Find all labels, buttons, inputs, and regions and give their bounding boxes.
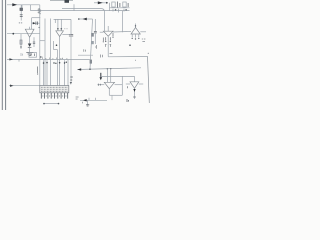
dimension dot left xyxy=(43,103,45,105)
capacitor box C2 left edge xyxy=(31,18,33,29)
capacitor C1 plates xyxy=(20,14,23,16)
wire y56.6 to right border xyxy=(108,55,147,57)
op-amp U4 triangle xyxy=(131,28,140,35)
wire U5 output horizontal xyxy=(109,94,122,96)
op-amp U6 feed stub xyxy=(134,76,136,81)
wire long vertical x40 xyxy=(39,5,41,86)
arrow bottom-left xyxy=(10,85,14,87)
tick below U4 1 xyxy=(131,34,133,37)
node dot U5 in left xyxy=(107,68,108,69)
wire U6 output xyxy=(134,88,136,99)
tick U5 left 1 xyxy=(97,84,99,86)
wire y76.4 feedback top xyxy=(101,75,135,77)
ground symbol G2 bars xyxy=(86,104,89,106)
wire mid-left horizontal y33.7 xyxy=(7,33,40,35)
IC U7 internal text rows xyxy=(41,86,68,88)
arrow left-pointing xyxy=(83,18,87,21)
wire jog vertical x53.6 xyxy=(53,41,55,50)
wire y68.8 long xyxy=(77,68,141,70)
arrow top-right xyxy=(98,1,103,4)
tick x96.3 xyxy=(95,45,97,49)
op-amp U1 feed stub xyxy=(29,27,31,29)
tick x103.3 xyxy=(102,38,104,42)
diode D2 xyxy=(28,44,32,47)
label near U3 output xyxy=(110,53,113,55)
node dot x78.8 xyxy=(78,18,80,20)
wire U3 right to U4 xyxy=(113,30,131,33)
wire vertical x122.3 xyxy=(121,76,123,95)
wire jog horizontal y49.6 xyxy=(54,49,58,51)
wire pin P3 xyxy=(57,50,59,86)
battery tick 2 xyxy=(118,9,120,13)
node dot U4 feed xyxy=(135,25,136,26)
tick x113 xyxy=(112,33,114,37)
tick U5 left 2 xyxy=(99,84,101,86)
tick x95.6 xyxy=(95,98,97,101)
op-amp U2 triangle xyxy=(56,31,64,37)
wire mid horizontal y59.4 xyxy=(7,58,90,60)
node dots pin row xyxy=(43,62,67,65)
battery BT1 bar 2 xyxy=(127,3,129,7)
node dot jog xyxy=(56,44,58,46)
junction node dot xyxy=(12,33,14,35)
op-amp U1 triangle xyxy=(25,29,34,37)
hook at x40 top xyxy=(41,56,43,58)
wire vertical x30.5 xyxy=(30,5,32,11)
wire corner into IC xyxy=(67,60,69,86)
battery BT1 bar xyxy=(116,2,118,8)
wire into C2 xyxy=(32,22,40,24)
node tick x19 xyxy=(18,59,20,61)
wire pin P2 xyxy=(46,60,48,85)
switch box S1 xyxy=(29,53,37,58)
node dot x89.8 xyxy=(89,68,91,70)
op-amp U3 triangle xyxy=(103,31,113,36)
label 4x xyxy=(76,97,79,99)
node dot x135.5 y60 xyxy=(135,60,136,61)
border frame right line xyxy=(148,56,150,103)
wire U5 input left vertical xyxy=(106,69,108,83)
node tick x105.7 xyxy=(105,37,107,40)
long bus wire y10.6 xyxy=(31,10,130,12)
op-amp U6 triangle xyxy=(130,82,139,89)
battery BT1 cell 2 xyxy=(123,2,126,7)
tick below U6 left wire xyxy=(127,86,129,88)
resistor R5 blob xyxy=(90,60,92,64)
node dot U2 left xyxy=(57,28,59,30)
arrow left on y68.8 xyxy=(77,68,81,71)
node dot right margin xyxy=(148,53,149,54)
op-amp U2 input left xyxy=(57,19,59,30)
op-amp U2 input right xyxy=(60,19,62,30)
op-amp U4 feed stub xyxy=(135,24,137,28)
wire vertical x45 xyxy=(44,19,46,86)
node dot below U3 right xyxy=(110,41,111,42)
wire U6 left input xyxy=(126,83,130,85)
capacitor box C2 top edge xyxy=(32,17,41,19)
arrow on y59.4 wire xyxy=(9,58,13,60)
tick pair x100-103 xyxy=(101,55,103,58)
op-amp U5 triangle xyxy=(104,82,114,88)
diode D1 blob on left column xyxy=(20,8,23,11)
label C2 xyxy=(38,27,39,28)
box top edge y8.6 xyxy=(62,9,104,32)
wire U5 right input horizontal xyxy=(115,84,123,86)
border frame top segment xyxy=(50,0,73,2)
node tick x74 xyxy=(73,4,75,10)
label marks left of G1 xyxy=(21,53,23,56)
switch S1 contacts xyxy=(30,54,32,57)
op-amp U3 feed stub xyxy=(107,26,109,31)
wire U3 left input xyxy=(100,31,104,33)
bars row2 below U3 xyxy=(105,45,111,47)
wire vertical x95.3 xyxy=(94,19,96,31)
wire U5 output xyxy=(108,89,110,96)
node blob right area xyxy=(129,44,131,46)
capacitor C2 plates xyxy=(35,22,37,25)
tick mark left of pins xyxy=(37,67,39,74)
wire top-left horizontal xyxy=(7,4,40,6)
wire bottom-left horizontal y85.7 xyxy=(9,85,40,87)
capacitor C4 plates xyxy=(94,30,97,32)
diode D2 cathode bar xyxy=(28,46,32,48)
label pins U2 xyxy=(64,28,67,30)
wire below D2 xyxy=(29,47,31,53)
border frame left inner line xyxy=(5,0,7,110)
node dot below U4 2 xyxy=(135,38,136,39)
wire stub y55.2 xyxy=(78,54,93,56)
node dot below U4 3 xyxy=(138,38,139,39)
wire with left arrow y19 xyxy=(79,18,93,20)
IC U7 body xyxy=(40,86,69,93)
wire vertical x109.5 xyxy=(109,3,111,11)
IC U7 pins bottom xyxy=(41,93,67,99)
wire U6 right input xyxy=(139,83,143,85)
tick below U4 2 xyxy=(135,34,137,38)
dimension line below IC xyxy=(44,103,59,105)
bar on U6 output xyxy=(133,96,136,98)
resistor R2 vertical left column xyxy=(20,5,22,21)
capacitor C5 right strand xyxy=(33,37,35,47)
tick pair x84 xyxy=(84,49,86,51)
riser x112 xyxy=(111,95,113,100)
wire horizontal y19.4 xyxy=(54,18,71,20)
wire battery bottom rail xyxy=(110,7,130,9)
node dot x96 xyxy=(95,47,96,48)
wire U3 output down xyxy=(107,36,109,56)
arrowhead U6 output xyxy=(133,89,135,92)
ground symbol G1 xyxy=(26,51,33,53)
wire below U1 xyxy=(29,37,31,43)
mark right of IC xyxy=(70,82,72,84)
battery BT1 cell 1 xyxy=(112,2,115,7)
node dot below U4 1 xyxy=(132,38,133,39)
wire vertical x71 xyxy=(70,19,72,34)
wire vertical x122.6 upper xyxy=(122,11,124,33)
wire vertical x50.5 xyxy=(50,19,52,86)
node tick x55.3 xyxy=(54,19,56,23)
wire bottom horizontal y100.3 xyxy=(80,99,107,101)
wire U4 right xyxy=(140,31,146,33)
plus mark 1 xyxy=(115,9,117,11)
node dot below U3 left xyxy=(105,41,106,42)
border frame left outer line xyxy=(1,0,3,110)
resistor R6 body xyxy=(20,40,22,44)
resistor R6 left strand xyxy=(20,34,22,49)
connector J1 top blob xyxy=(65,0,70,3)
wire pin P5 xyxy=(64,60,66,85)
tick below U4 3 xyxy=(138,34,140,37)
label 4x upper xyxy=(70,77,73,80)
battery BT1 bar short xyxy=(119,3,121,7)
arrow into C2 xyxy=(33,22,36,24)
plus mark 2 xyxy=(125,9,127,11)
wire stub y40.7 xyxy=(40,40,45,42)
wire U2 output xyxy=(59,37,61,86)
dot x113 xyxy=(112,37,113,38)
resistor R3 blob xyxy=(91,33,94,37)
node dot U5 in right xyxy=(110,68,111,69)
capacitor C5 plates xyxy=(33,41,35,43)
wire vertical x92.5 xyxy=(90,19,93,69)
arrow down x100.8 xyxy=(100,73,102,78)
wire U2 side stub xyxy=(62,33,71,35)
wire U5 input right vertical xyxy=(110,69,112,83)
label 6.3V xyxy=(142,39,146,42)
node tick x110.3 xyxy=(109,37,111,40)
resistor R1 zigzag xyxy=(38,8,40,14)
capacitor C3 plates xyxy=(69,34,73,36)
node dot top-right xyxy=(106,2,108,4)
wire top-right horizontal xyxy=(94,2,107,4)
resistor R4 blob xyxy=(91,41,94,44)
dimension dot right xyxy=(58,103,60,105)
label below wire xyxy=(82,102,84,104)
battery tick 1 xyxy=(112,9,114,12)
label marks bottom right xyxy=(127,99,129,102)
dot x103.3 xyxy=(103,41,104,42)
wire U5 left input horizontal xyxy=(98,84,105,86)
battery tick 3 xyxy=(123,9,125,12)
IC pin feet dots xyxy=(42,96,66,97)
wire pin P1 xyxy=(43,60,45,85)
ground symbol G2 stem xyxy=(87,100,89,104)
wire below C4 xyxy=(94,33,96,44)
arrow on top-left wire xyxy=(12,3,17,6)
pin number labels xyxy=(42,58,67,60)
tick x89 xyxy=(88,98,90,101)
wire below C3 xyxy=(70,36,72,84)
node dot U2 right xyxy=(61,28,63,30)
label C1 value xyxy=(19,22,23,24)
node dot R6 bottom xyxy=(20,46,21,47)
node tick x22 xyxy=(21,5,23,8)
arrow left bottom xyxy=(83,99,87,101)
